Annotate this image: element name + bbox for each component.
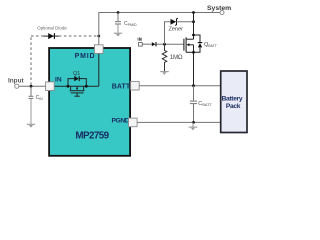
node dashed meets PMID line — [97, 35, 100, 38]
Q1 body arrow — [76, 88, 78, 90]
svg-text:Q1: Q1 — [73, 71, 80, 77]
svg-text:CPMID: CPMID — [124, 21, 137, 27]
node QBATT source diode — [192, 51, 195, 54]
svg-text:PGND: PGND — [111, 117, 129, 124]
node junction input/CIN — [30, 85, 33, 88]
svg-text:1MΩ: 1MΩ — [170, 54, 183, 61]
resistor R1 1Mohm — [162, 44, 167, 71]
node Q1 left — [67, 85, 70, 88]
ground CPMID — [114, 33, 122, 36]
Q1 body diode — [74, 76, 79, 81]
dashed wire node to optional diode — [31, 36, 99, 85]
wire PGND to battery pack — [137, 121, 221, 123]
node CPMID on rail — [117, 11, 120, 14]
pin square BATT — [131, 81, 140, 90]
ground R1 — [160, 72, 169, 75]
node rail QBATT — [192, 11, 195, 14]
wire CIN to ground — [30, 99, 32, 124]
net label IN rotated — [138, 38, 141, 41]
svg-text:PMID: PMID — [75, 53, 96, 60]
node QBATT drain diode — [192, 34, 195, 37]
capacitor CPMID — [115, 13, 121, 33]
QBATT body diode — [194, 35, 201, 43]
node zener drain — [192, 20, 195, 23]
pin square IN — [46, 82, 55, 91]
node gate junction — [163, 43, 166, 46]
svg-text:Pack: Pack — [226, 103, 241, 110]
svg-text:CIN: CIN — [36, 95, 44, 101]
IC U1 MP2759 block — [49, 48, 130, 156]
QBATT body arrow — [187, 43, 190, 46]
input terminal circle — [15, 84, 19, 88]
svg-text:CBATT: CBATT — [198, 101, 212, 107]
ground CIN — [27, 124, 35, 127]
capacitor CBATT — [190, 86, 197, 123]
svg-text:MP2759: MP2759 — [75, 130, 109, 141]
svg-text:Optional Diode: Optional Diode — [37, 26, 67, 31]
pin square PMID — [95, 45, 104, 54]
svg-text:Battery: Battery — [222, 96, 243, 103]
wire IN port to diode — [142, 43, 152, 45]
wire input to IN pin — [19, 85, 46, 87]
ground PGND — [189, 122, 198, 130]
net port IN — [138, 43, 142, 47]
transistor Q1 internal wiring — [54, 53, 99, 96]
wire zener branch — [165, 22, 171, 44]
svg-text:Input: Input — [8, 78, 24, 85]
System terminal — [220, 11, 224, 15]
pin square PGND — [129, 118, 138, 127]
svg-text:System: System — [207, 5, 231, 12]
battery pack box — [221, 71, 247, 133]
svg-text:BATT: BATT — [112, 83, 131, 90]
node BATT wire — [192, 84, 195, 87]
svg-text:QBATT: QBATT — [204, 42, 217, 48]
svg-text:IN: IN — [55, 77, 62, 84]
diode D1 gate drive — [152, 42, 156, 46]
zener diode — [171, 19, 177, 25]
wire BATT to battery pack — [139, 85, 221, 87]
wire PMID pin up and top rail to System — [99, 13, 220, 45]
node Q1 right — [85, 85, 88, 88]
transistor QBATT — [184, 13, 194, 86]
svg-text:Zener: Zener — [168, 26, 183, 32]
node PGND wire — [192, 121, 195, 124]
capacitor CIN — [29, 86, 34, 98]
optional diode — [44, 33, 59, 39]
wire diode to gate — [156, 43, 184, 45]
wire zener to drain line — [176, 21, 193, 23]
